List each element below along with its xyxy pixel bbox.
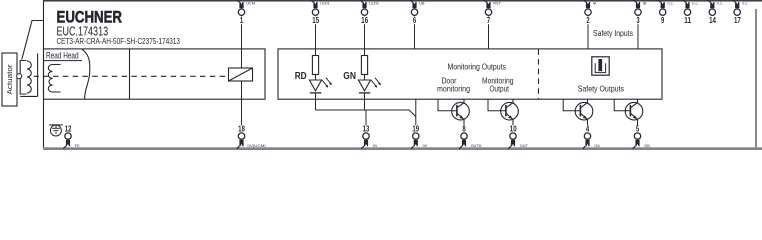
- svg-text:Monitoring Outputs: Monitoring Outputs: [448, 62, 507, 72]
- svg-text:0V(UCM): 0V(UCM): [247, 144, 266, 148]
- svg-text:Actuator: Actuator: [5, 64, 14, 94]
- svg-text:12: 12: [65, 123, 72, 133]
- svg-text:IA: IA: [593, 1, 597, 5]
- svg-text:17: 17: [734, 15, 741, 25]
- svg-text:5: 5: [636, 123, 640, 133]
- svg-text:18: 18: [238, 123, 245, 133]
- svg-text:Output: Output: [490, 84, 510, 94]
- svg-text:9: 9: [661, 15, 665, 25]
- svg-text:4: 4: [586, 123, 590, 133]
- svg-text:IB: IB: [643, 1, 647, 5]
- svg-text:11: 11: [684, 15, 691, 25]
- svg-text:Read Head: Read Head: [46, 51, 79, 61]
- svg-text:8: 8: [462, 123, 466, 133]
- svg-text:n.c.: n.c.: [692, 1, 698, 5]
- svg-text:6: 6: [413, 15, 417, 25]
- svg-text:3: 3: [636, 15, 640, 25]
- svg-text:Safety Outputs: Safety Outputs: [578, 83, 625, 93]
- svg-text:2: 2: [586, 15, 590, 25]
- svg-text:CET3-AR-CRA-AH-50F-SH-C2375-17: CET3-AR-CRA-AH-50F-SH-C2375-174313: [57, 37, 181, 46]
- svg-text:RST: RST: [493, 1, 501, 5]
- svg-text:RD: RD: [295, 71, 307, 82]
- svg-text:LED1: LED1: [320, 1, 330, 5]
- svg-text:n.c.: n.c.: [717, 1, 723, 5]
- svg-text:UCM: UCM: [246, 1, 255, 5]
- svg-text:OUT: OUT: [520, 144, 529, 148]
- svg-text:UB: UB: [419, 1, 425, 5]
- svg-text:1: 1: [240, 15, 244, 25]
- svg-text:14: 14: [709, 15, 716, 25]
- svg-text:10: 10: [510, 123, 517, 133]
- svg-text:OUTD: OUTD: [471, 144, 482, 148]
- svg-text:13: 13: [363, 123, 370, 133]
- svg-text:monitoring: monitoring: [437, 84, 470, 94]
- svg-text:FE: FE: [75, 144, 80, 148]
- svg-text:OB: OB: [644, 144, 650, 148]
- svg-text:OA: OA: [594, 144, 600, 148]
- svg-text:Safety Inputs: Safety Inputs: [593, 28, 634, 38]
- svg-text:GN: GN: [343, 71, 356, 82]
- svg-text:n.c.: n.c.: [668, 1, 674, 5]
- svg-text:15: 15: [312, 15, 319, 25]
- svg-text:19: 19: [412, 123, 419, 133]
- svg-text:7: 7: [487, 15, 491, 25]
- svg-text:LED2: LED2: [369, 1, 379, 5]
- svg-text:16: 16: [361, 15, 368, 25]
- svg-text:0V: 0V: [373, 144, 378, 148]
- svg-text:0V: 0V: [423, 144, 428, 148]
- svg-text:n.c.: n.c.: [742, 1, 748, 5]
